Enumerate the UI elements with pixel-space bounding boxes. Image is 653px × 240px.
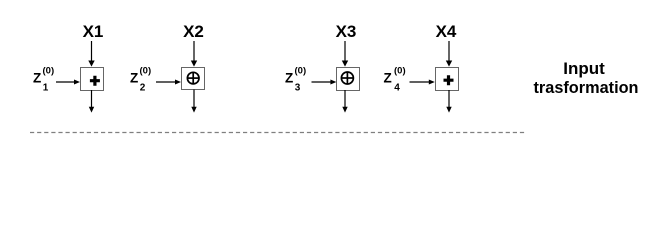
arrowhead into left of adder M1 — [74, 80, 80, 85]
adder box M4 — [436, 68, 459, 91]
svg-text:Z: Z — [130, 71, 138, 86]
svg-text:(0): (0) — [140, 66, 152, 77]
svg-text:(0): (0) — [394, 66, 406, 77]
wire X2 down into xor — [193, 41, 195, 62]
dashed separator line — [30, 132, 526, 134]
svg-text:1: 1 — [43, 83, 49, 94]
svg-text:4: 4 — [394, 83, 400, 94]
arrowhead into top of adder M1 — [88, 61, 94, 67]
adder box M1 — [81, 68, 104, 91]
wire Z4 into adder — [410, 81, 430, 83]
arrowhead into left of xor U2 — [175, 80, 181, 85]
wire Z1 into adder — [56, 81, 75, 83]
svg-text:2: 2 — [140, 83, 146, 94]
arrowhead into left of adder M4 — [429, 80, 435, 85]
svg-text:X4: X4 — [436, 22, 457, 41]
svg-text:X3: X3 — [336, 22, 357, 41]
xor operator in U2 — [187, 72, 199, 84]
wire output of M1 down — [91, 90, 93, 108]
svg-text:Input: Input — [563, 59, 605, 78]
wire X4 down into adder — [448, 41, 450, 62]
svg-text:(0): (0) — [295, 66, 307, 77]
svg-text:Z: Z — [33, 71, 41, 86]
wire X3 down into xor — [344, 41, 346, 62]
wire Z2 into xor — [156, 81, 176, 83]
xor box U2 — [182, 68, 205, 90]
wire Z3 into xor — [312, 81, 331, 83]
arrowhead into top of xor U2 — [191, 61, 197, 67]
xor operator in U3 — [341, 72, 353, 84]
svg-text:Z: Z — [285, 71, 293, 86]
svg-text:X1: X1 — [83, 22, 104, 41]
plus operator in M1 — [90, 76, 100, 86]
arrowhead into top of adder M4 — [446, 61, 452, 67]
wire output of U2 down — [193, 90, 195, 108]
svg-text:(0): (0) — [43, 66, 55, 77]
arrowhead into left of xor U3 — [330, 80, 336, 85]
svg-text:X2: X2 — [183, 22, 204, 41]
arrowhead output M1 — [89, 107, 94, 113]
wire output of M4 down — [448, 90, 450, 108]
svg-text:Z: Z — [384, 71, 392, 86]
arrowhead output U3 — [342, 107, 347, 113]
svg-text:trasformation: trasformation — [534, 78, 639, 97]
plus operator in M4 — [444, 75, 454, 85]
arrowhead output U2 — [191, 107, 196, 113]
svg-text:3: 3 — [295, 83, 301, 94]
wire X1 down into adder — [91, 41, 93, 62]
arrowhead into top of xor U3 — [342, 61, 348, 67]
wire output of U3 down — [344, 90, 346, 108]
xor box U3 — [337, 68, 360, 91]
arrowhead output M4 — [446, 107, 451, 113]
